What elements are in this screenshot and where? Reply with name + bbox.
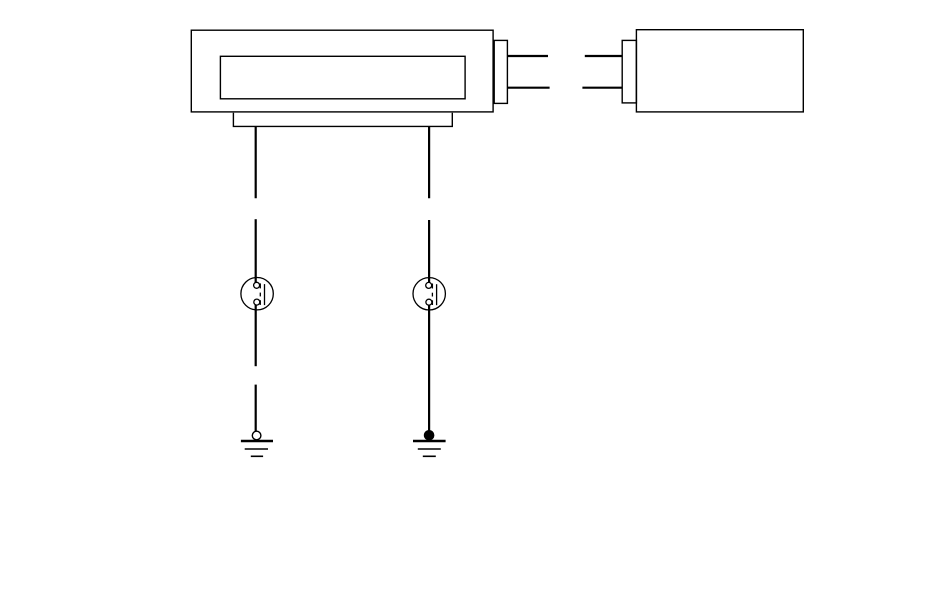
connector bracket under U1 bbox=[233, 113, 452, 127]
ground G2 (solid terminal) bbox=[413, 431, 446, 457]
wire: right drop segment 1 bbox=[428, 126, 430, 198]
wire: left drop segment 3 bbox=[255, 305, 257, 366]
display window bbox=[220, 56, 465, 99]
wire: right drop segment 2 bbox=[428, 220, 430, 283]
wire: U1 pin 1 to inline gap bbox=[507, 55, 548, 57]
ground G1 (clean ground, open terminal) bbox=[241, 431, 273, 456]
connector shroud on U1 bbox=[494, 40, 507, 103]
wire: left drop segment 2 bbox=[255, 219, 257, 282]
wire: right drop segment 3 bbox=[428, 305, 430, 431]
inline connector C1 bbox=[241, 278, 273, 310]
head unit U1 bbox=[191, 30, 493, 112]
wire: left drop segment 1 bbox=[255, 126, 257, 198]
wire: U1 pin 2 to inline gap bbox=[507, 87, 549, 89]
wire: inline gap to M1 pin 2 bbox=[582, 87, 622, 89]
inline connector C2 bbox=[413, 278, 445, 310]
wire: inline gap to M1 pin 1 bbox=[585, 55, 622, 57]
connector shroud on M1 bbox=[622, 40, 636, 103]
module M1 bbox=[636, 30, 803, 112]
wire: left drop segment 4 bbox=[255, 385, 257, 432]
